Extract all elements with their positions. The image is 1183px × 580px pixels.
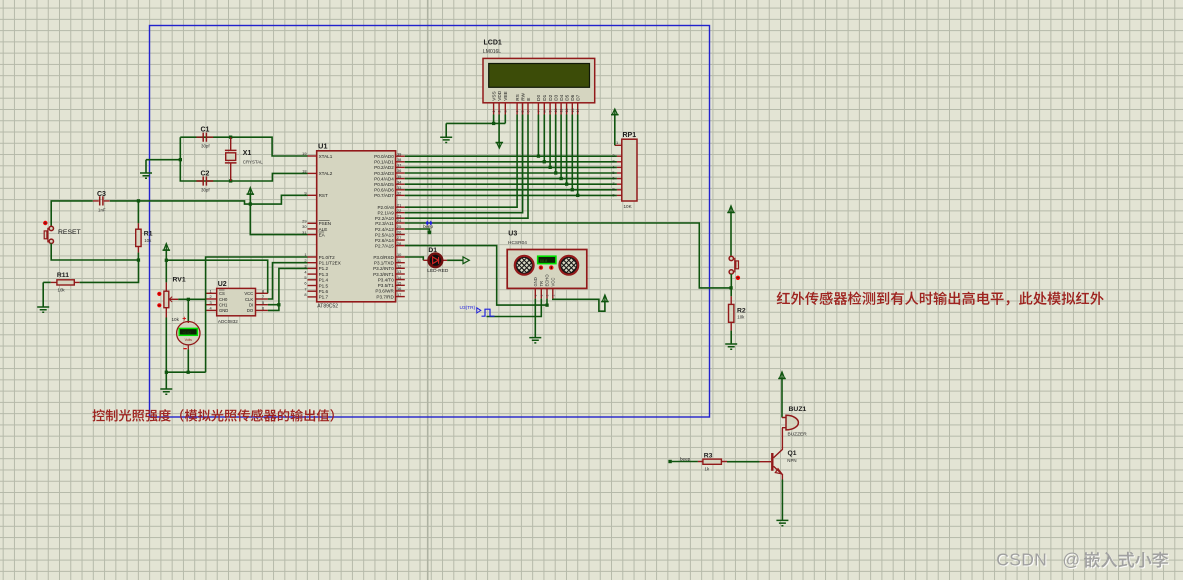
svg-text:R1: R1: [144, 231, 153, 238]
ground (crystal): [140, 160, 152, 179]
svg-text:6: 6: [262, 306, 264, 311]
potentiometer RV1 10k: [157, 260, 186, 372]
svg-text:P0.7/AD7: P0.7/AD7: [374, 193, 394, 198]
svg-text:3: 3: [210, 300, 212, 305]
resistor R1 10k (vertical): [136, 201, 153, 260]
svg-text:ALE: ALE: [319, 227, 328, 232]
svg-text:AT89C52: AT89C52: [317, 303, 338, 309]
svg-text:1nF: 1nF: [98, 208, 106, 213]
svg-text:30pf: 30pf: [201, 144, 210, 149]
wire RP1 pin1 to power: [614, 115, 616, 146]
wire RESET bottom to R1/R11 node: [51, 243, 140, 261]
svg-text:26: 26: [397, 230, 401, 235]
wire U3 GND to ground: [534, 299, 536, 338]
svg-text:BUZ1: BUZ1: [789, 406, 807, 413]
svg-text:ADC0832: ADC0832: [218, 319, 238, 324]
svg-text:5: 5: [612, 170, 614, 175]
voltmeter (Volts): [177, 299, 200, 374]
svg-text:P0.2/AD2: P0.2/AD2: [374, 165, 394, 170]
svg-text:TR: TR: [539, 281, 544, 287]
svg-text:P2.1/A9: P2.1/A9: [377, 211, 394, 216]
svg-text:P2.5/A13: P2.5/A13: [375, 232, 394, 237]
svg-text:11: 11: [397, 258, 401, 263]
annotation: IR sensor note (red): [777, 292, 1104, 306]
svg-text:2: 2: [612, 153, 614, 158]
wire U1 P1.2 to U2 DI/DO: [268, 268, 308, 310]
capacitor C3 1nF: [93, 191, 110, 213]
svg-text:28: 28: [397, 241, 401, 246]
svg-text:2: 2: [498, 111, 502, 113]
wire Q1 emitter to ground: [781, 480, 783, 521]
svg-text:25: 25: [397, 224, 401, 229]
svg-text:3: 3: [504, 111, 508, 113]
svg-text:D3: D3: [554, 94, 559, 100]
ultrasonic sensor U3 HCSR04: [506, 231, 587, 299]
svg-text:P2.0/A8: P2.0/A8: [377, 205, 394, 210]
svg-text:CSDN: CSDN: [996, 550, 1047, 570]
svg-text:P2.3/A11: P2.3/A11: [375, 221, 394, 226]
svg-text:9: 9: [549, 111, 553, 113]
svg-text:33: 33: [397, 185, 401, 190]
svg-text:D1: D1: [542, 94, 547, 100]
svg-text:R2: R2: [737, 307, 746, 314]
svg-text:21: 21: [397, 202, 401, 207]
grid major line: [427, 0, 429, 580]
svg-text:13: 13: [397, 269, 401, 274]
svg-text:DO: DO: [247, 308, 254, 313]
svg-text:D5: D5: [564, 94, 569, 100]
MCU U1 AT89C52: [302, 142, 405, 310]
wire power to IR switch: [730, 213, 732, 257]
svg-text:D6: D6: [570, 94, 575, 100]
svg-text:PSEN: PSEN: [319, 221, 332, 226]
svg-text:GND: GND: [533, 277, 538, 286]
svg-text:5: 5: [262, 300, 264, 305]
svg-text:35: 35: [397, 174, 401, 179]
wire U1 P2.3 to IR node (long): [405, 223, 731, 288]
svg-text:R3: R3: [704, 452, 713, 459]
svg-text:8: 8: [262, 288, 264, 293]
buzzer BUZ1: [782, 406, 807, 438]
svg-text:10K: 10K: [624, 204, 633, 209]
ground (LCD VSS): [440, 123, 452, 142]
svg-text:12: 12: [565, 109, 569, 113]
wire U3 ECHO down: [546, 299, 548, 306]
svg-text:39: 39: [397, 151, 401, 156]
svg-text:D4: D4: [559, 94, 564, 100]
svg-text:C1: C1: [201, 127, 210, 134]
svg-text:7: 7: [537, 111, 541, 113]
svg-text:P0.0/AD0: P0.0/AD0: [374, 154, 394, 159]
svg-text:11: 11: [560, 109, 564, 113]
wire P0 data bus (8 lines to RP1 and LCD): [405, 115, 617, 198]
svg-text:32: 32: [397, 191, 401, 196]
LCD LCD1 LM016L: [483, 40, 595, 115]
ADC U2 ADC0832: [205, 281, 268, 324]
power terminal (RST node): [247, 188, 255, 196]
svg-text:ECHO: ECHO: [545, 274, 550, 287]
label beep (right): [668, 456, 690, 463]
resistor R3 1k: [672, 452, 772, 471]
resistor pack RP1 10K: [612, 132, 637, 209]
svg-text:8: 8: [612, 187, 614, 192]
wire RV1 wiper to U2 CH0 and voltmeter: [178, 298, 205, 301]
svg-text:beep: beep: [680, 456, 691, 461]
svg-text:7: 7: [612, 181, 614, 186]
wire U1 P1.0 to U2 CS / ground rail: [206, 257, 308, 372]
svg-text:U1: U1: [318, 142, 328, 151]
svg-text:P3.2/INT0: P3.2/INT0: [373, 266, 394, 271]
svg-text:1: 1: [551, 295, 555, 297]
svg-text:CH0: CH0: [219, 297, 228, 302]
svg-text:7: 7: [262, 294, 264, 299]
svg-text:P2.4/A12: P2.4/A12: [375, 227, 394, 232]
svg-text:R11: R11: [57, 272, 69, 279]
svg-text:HCSR04: HCSR04: [508, 240, 527, 246]
svg-text:P3.4/T0: P3.4/T0: [378, 277, 395, 282]
svg-text:P1.1/T2EX: P1.1/T2EX: [319, 261, 341, 266]
wire C3 node to RST and EA: [110, 195, 308, 235]
svg-text:1: 1: [492, 111, 496, 113]
svg-text:10k: 10k: [58, 288, 66, 293]
svg-text:P3.7/RD: P3.7/RD: [376, 294, 394, 299]
svg-text:4: 4: [304, 269, 307, 274]
svg-text:P3.5/T1: P3.5/T1: [378, 283, 395, 288]
wire blue selection frame: [150, 26, 710, 418]
svg-text:P3.1/TXD: P3.1/TXD: [374, 261, 395, 266]
svg-text:@: @: [1062, 550, 1080, 570]
wire U3 TR to pulse source: [487, 299, 542, 317]
wire LCD RW to U1 P2.1: [405, 115, 523, 213]
power terminal (U3 VCC): [601, 295, 609, 303]
svg-text:6: 6: [304, 281, 306, 286]
svg-text:VEE: VEE: [503, 91, 508, 100]
svg-text:6: 6: [527, 111, 531, 113]
svg-text:6: 6: [612, 176, 614, 181]
wire U1 P1.1 to U2 CLK: [268, 263, 308, 299]
power terminal (down arrow, LCD VDD): [496, 142, 504, 149]
svg-text:VDD: VDD: [497, 90, 502, 101]
svg-text:CH1: CH1: [219, 303, 228, 308]
wire C3 left to RESET button: [51, 201, 93, 227]
svg-text:1: 1: [616, 140, 618, 145]
svg-text:4: 4: [516, 111, 520, 113]
capacitor C1 30pf: [196, 127, 213, 149]
svg-text:P0.6/AD6: P0.6/AD6: [374, 188, 394, 193]
ground (R11): [37, 282, 49, 312]
svg-text:1: 1: [546, 295, 550, 297]
power terminal (RP1): [611, 109, 619, 116]
svg-text:P0.3/AD3: P0.3/AD3: [374, 171, 394, 176]
power terminal (IR): [727, 206, 735, 214]
svg-text:VCC: VCC: [244, 291, 253, 296]
svg-text:5: 5: [521, 111, 525, 113]
svg-text:E: E: [526, 98, 531, 101]
svg-text:38: 38: [397, 157, 401, 162]
push button (IR sensor sim): [729, 256, 740, 280]
node marker (blue, on P2.3 wire): [426, 221, 433, 226]
svg-text:1: 1: [210, 288, 212, 293]
ground (U3): [529, 338, 541, 343]
svg-text:16: 16: [397, 286, 401, 291]
svg-text:Volts: Volts: [185, 338, 193, 342]
svg-text:beep: beep: [423, 224, 433, 229]
wire LCD VDD to power: [498, 115, 500, 143]
svg-text:3: 3: [612, 159, 614, 164]
push button RESET: [43, 221, 81, 244]
svg-text:RW: RW: [520, 92, 525, 100]
wire U1 P2.4 beep stub: [405, 229, 431, 234]
svg-text:P2.6/A14: P2.6/A14: [375, 238, 394, 243]
svg-text:RP1: RP1: [623, 132, 637, 139]
watermark CSDN: [996, 550, 1081, 571]
LED D1 LED-RED: [405, 247, 470, 274]
svg-text:9: 9: [612, 192, 614, 197]
svg-text:VSS: VSS: [491, 91, 496, 100]
wire LCD VSS/VEE to ground rail: [446, 115, 505, 126]
resistor R11 10k (horizontal): [43, 260, 138, 293]
power terminal (RV1 rail): [163, 244, 171, 252]
svg-text:EA: EA: [319, 232, 326, 237]
svg-text:U3: U3: [508, 231, 517, 238]
svg-text:P2.7/A15: P2.7/A15: [375, 243, 394, 248]
svg-text:LM016L: LM016L: [483, 49, 501, 55]
svg-text:P1.4: P1.4: [319, 278, 329, 283]
ground (Q1): [776, 520, 788, 525]
power terminal (buzzer): [778, 372, 786, 380]
svg-text:30: 30: [302, 224, 307, 229]
svg-text:29: 29: [302, 219, 306, 224]
svg-text:U3(TR): U3(TR): [460, 305, 476, 311]
svg-text:88.8: 88.8: [540, 259, 547, 263]
svg-text:Q1: Q1: [788, 450, 797, 457]
crystal X1: [225, 137, 263, 181]
svg-text:BUZZER: BUZZER: [788, 432, 808, 438]
svg-text:P0.1/AD1: P0.1/AD1: [374, 160, 394, 165]
svg-text:10k: 10k: [737, 315, 745, 320]
svg-text:RST: RST: [319, 193, 328, 198]
svg-text:P1.2: P1.2: [319, 266, 329, 271]
label beep (left): [423, 224, 433, 229]
ground (R2): [725, 344, 737, 349]
svg-text:D7: D7: [576, 94, 581, 100]
svg-text:NPN: NPN: [787, 458, 796, 463]
svg-text:LED-RED: LED-RED: [427, 268, 449, 274]
svg-text:CS: CS: [219, 291, 225, 296]
svg-text:XTAL1: XTAL1: [319, 154, 333, 159]
svg-text:37: 37: [397, 163, 401, 168]
wire U3 VCC to power: [553, 299, 605, 312]
wire LCD E to U1 P2.2: [405, 115, 528, 219]
svg-text:10k: 10k: [172, 317, 180, 322]
svg-text:1k: 1k: [705, 466, 710, 471]
capacitor C2 30pf: [196, 170, 213, 192]
svg-text:U2: U2: [218, 281, 227, 288]
svg-text:X1: X1: [243, 150, 252, 157]
svg-text:14: 14: [576, 109, 580, 113]
svg-text:P1.6: P1.6: [319, 289, 329, 294]
svg-text:P1.5: P1.5: [319, 283, 329, 288]
svg-text:10k: 10k: [144, 238, 152, 243]
svg-text:30pf: 30pf: [201, 187, 210, 192]
svg-text:P3.3/INT1: P3.3/INT1: [373, 272, 394, 277]
svg-text:12: 12: [397, 264, 401, 269]
svg-text:GND: GND: [219, 308, 228, 313]
svg-text:22: 22: [397, 208, 401, 213]
annotation: light control note (red): [92, 409, 334, 422]
svg-text:C2: C2: [201, 170, 210, 177]
svg-text:P0.5/AD5: P0.5/AD5: [374, 182, 394, 187]
wire crystal rails: [146, 136, 308, 183]
svg-text:P1.3: P1.3: [319, 272, 329, 277]
svg-text:17: 17: [397, 292, 401, 297]
svg-text:CRYSTAL: CRYSTAL: [243, 160, 263, 165]
svg-text:+: +: [182, 316, 186, 323]
svg-text:CLK: CLK: [245, 297, 253, 302]
svg-text:RV1: RV1: [173, 277, 186, 284]
svg-text:P3.0/RXD: P3.0/RXD: [373, 255, 394, 260]
ground (RV1 rail): [160, 372, 172, 394]
svg-text:13: 13: [571, 109, 575, 113]
svg-text:D0: D0: [536, 94, 541, 100]
svg-text:10: 10: [554, 109, 558, 113]
wire U1 P2.7 to U3 ECHO: [405, 246, 549, 307]
svg-text:8: 8: [543, 111, 547, 113]
svg-text:XTAL2: XTAL2: [319, 171, 333, 176]
pulse generator U3(TR): [460, 305, 495, 316]
svg-text:5: 5: [304, 275, 306, 280]
svg-text:8: 8: [304, 292, 306, 297]
svg-text:1: 1: [540, 295, 544, 297]
svg-text:DI: DI: [249, 303, 253, 308]
transistor Q1 NPN: [771, 428, 797, 480]
svg-text:2: 2: [210, 294, 212, 299]
wire ground rail under RV1: [165, 371, 206, 374]
wire IR switch to node: [729, 274, 732, 290]
svg-text:P1.7: P1.7: [319, 295, 329, 300]
svg-text:RESET: RESET: [58, 229, 81, 236]
svg-text:C3: C3: [97, 191, 106, 198]
wire VCC rail to U2 VCC: [165, 250, 268, 293]
svg-text:1: 1: [534, 295, 538, 297]
svg-text:RS: RS: [515, 94, 520, 101]
svg-text:LCD1: LCD1: [484, 40, 502, 47]
svg-text:VCC: VCC: [551, 278, 556, 287]
svg-text:+0.02: +0.02: [182, 331, 191, 335]
svg-text:P0.4/AD4: P0.4/AD4: [374, 176, 394, 181]
resistor R2 10k: [729, 288, 746, 344]
svg-text:27: 27: [397, 235, 401, 240]
svg-text:P3.6/WR: P3.6/WR: [375, 289, 394, 294]
wire LCD RS to U1 P2.0: [405, 115, 517, 208]
svg-text:36: 36: [397, 168, 401, 173]
svg-text:D2: D2: [548, 94, 553, 100]
wire power to buzzer: [781, 379, 783, 418]
svg-text:7: 7: [304, 286, 306, 291]
svg-text:15: 15: [397, 281, 401, 286]
svg-text:P1.0/T2: P1.0/T2: [319, 255, 336, 260]
